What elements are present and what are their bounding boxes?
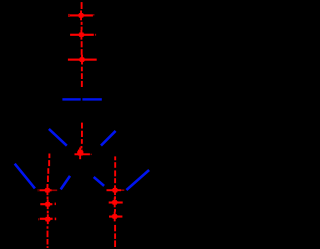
node N2 (second marker of upper chain) xyxy=(70,30,96,40)
edge IL (blue diagonal from C toward left lower chain) xyxy=(61,176,70,190)
edge UR (blue diagonal upper-right) xyxy=(101,131,116,146)
node L1 (left chain marker 1) xyxy=(38,185,58,195)
wire: dashes between N2 and N3 xyxy=(81,41,83,47)
node N1 (top marker of upper chain) xyxy=(68,11,94,21)
wire: dash between L2 and L3 xyxy=(47,211,49,214)
edge OR (blue diagonal outer-right) xyxy=(126,170,149,190)
node N3 (third marker of upper chain) xyxy=(68,55,97,65)
junction bar right segment (blue) xyxy=(82,98,101,100)
edge IR (blue diagonal from C toward right lower chain) xyxy=(94,177,104,186)
wire: dash between L1 and L2 xyxy=(47,197,49,200)
wire: dashed edge from bar down to node C xyxy=(81,123,83,129)
wire: dashed lead above left lower chain xyxy=(48,154,50,159)
node R2 (right chain marker 2) xyxy=(109,198,123,208)
edge OL (blue diagonal outer-left) xyxy=(15,164,35,189)
node R3 (right chain marker 3) xyxy=(109,212,122,222)
wire: dashed lead above right lower chain xyxy=(114,156,116,160)
wire: dashed tail below right chain xyxy=(114,225,116,231)
wire: dashed tail below left chain xyxy=(47,226,49,228)
node L3 (left chain marker 3) xyxy=(38,214,56,224)
junction bar left segment (blue) xyxy=(62,98,80,100)
node C (central junction marker) xyxy=(75,148,92,160)
node R1 (right chain marker 1) xyxy=(107,185,125,195)
wire: dashes between N1 and N2 xyxy=(81,22,83,25)
wire: dash between R1 and R2 xyxy=(114,196,116,199)
edge UL (blue diagonal upper-left) xyxy=(49,129,67,146)
node L2 (left chain marker 2) xyxy=(40,199,56,209)
wire: dash between R2 and R3 xyxy=(114,209,116,212)
wire: dashed edge from N3 down to blue junction bar xyxy=(81,67,83,72)
wire: top dashed lead of upper chain xyxy=(81,2,83,9)
